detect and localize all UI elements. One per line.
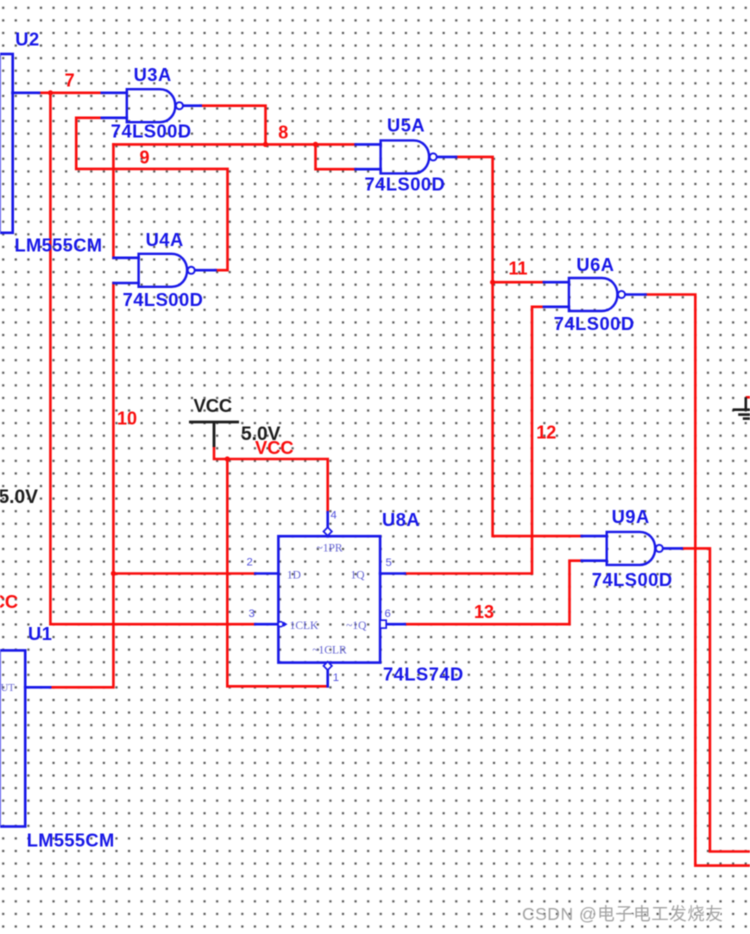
svg-text:5: 5 (386, 557, 392, 569)
svg-text:U3A: U3A (134, 64, 172, 85)
svg-text:1D: 1D (287, 570, 301, 582)
svg-text:74LS00D: 74LS00D (554, 313, 635, 334)
svg-text:2: 2 (247, 557, 253, 569)
svg-text:1CLK: 1CLK (290, 620, 319, 632)
svg-text:4: 4 (331, 510, 337, 522)
svg-text:VCC: VCC (255, 437, 294, 458)
svg-text:3: 3 (249, 608, 255, 620)
svg-text:U5A: U5A (387, 115, 425, 136)
svg-text:7: 7 (65, 71, 75, 91)
svg-text:74LS74D: 74LS74D (383, 664, 464, 685)
svg-text:U9A: U9A (612, 506, 650, 527)
svg-text:OUT: OUT (0, 683, 15, 694)
svg-text:VCC: VCC (0, 591, 18, 612)
svg-text:U4A: U4A (146, 229, 184, 250)
svg-text:VCC: VCC (194, 395, 233, 416)
svg-text:5.0V: 5.0V (0, 487, 38, 508)
svg-text:6: 6 (385, 608, 391, 620)
svg-text:~1PR: ~1PR (316, 543, 342, 555)
svg-text:13: 13 (474, 602, 494, 622)
svg-text:CSDN @电子电工发烧友: CSDN @电子电工发烧友 (522, 904, 723, 924)
svg-text:U2: U2 (15, 29, 39, 50)
svg-text:~1Q: ~1Q (346, 620, 367, 632)
svg-text:LM555CM: LM555CM (27, 830, 115, 851)
svg-text:74LS00D: 74LS00D (365, 174, 446, 195)
svg-text:74LS00D: 74LS00D (111, 121, 192, 142)
svg-text:LM555CM: LM555CM (15, 235, 103, 256)
svg-text:8: 8 (278, 123, 288, 143)
svg-text:U8A: U8A (382, 509, 420, 530)
svg-text:U1: U1 (28, 623, 52, 644)
svg-text:9: 9 (140, 148, 150, 168)
svg-text:U6A: U6A (576, 254, 614, 275)
svg-text:12: 12 (536, 423, 556, 443)
svg-text:74LS00D: 74LS00D (592, 569, 673, 590)
svg-text:~1CLR: ~1CLR (312, 645, 347, 657)
svg-text:74LS00D: 74LS00D (123, 289, 204, 310)
svg-text:1Q: 1Q (351, 570, 366, 582)
svg-text:11: 11 (509, 259, 528, 279)
svg-text:1: 1 (333, 672, 339, 684)
svg-text:10: 10 (117, 409, 137, 429)
